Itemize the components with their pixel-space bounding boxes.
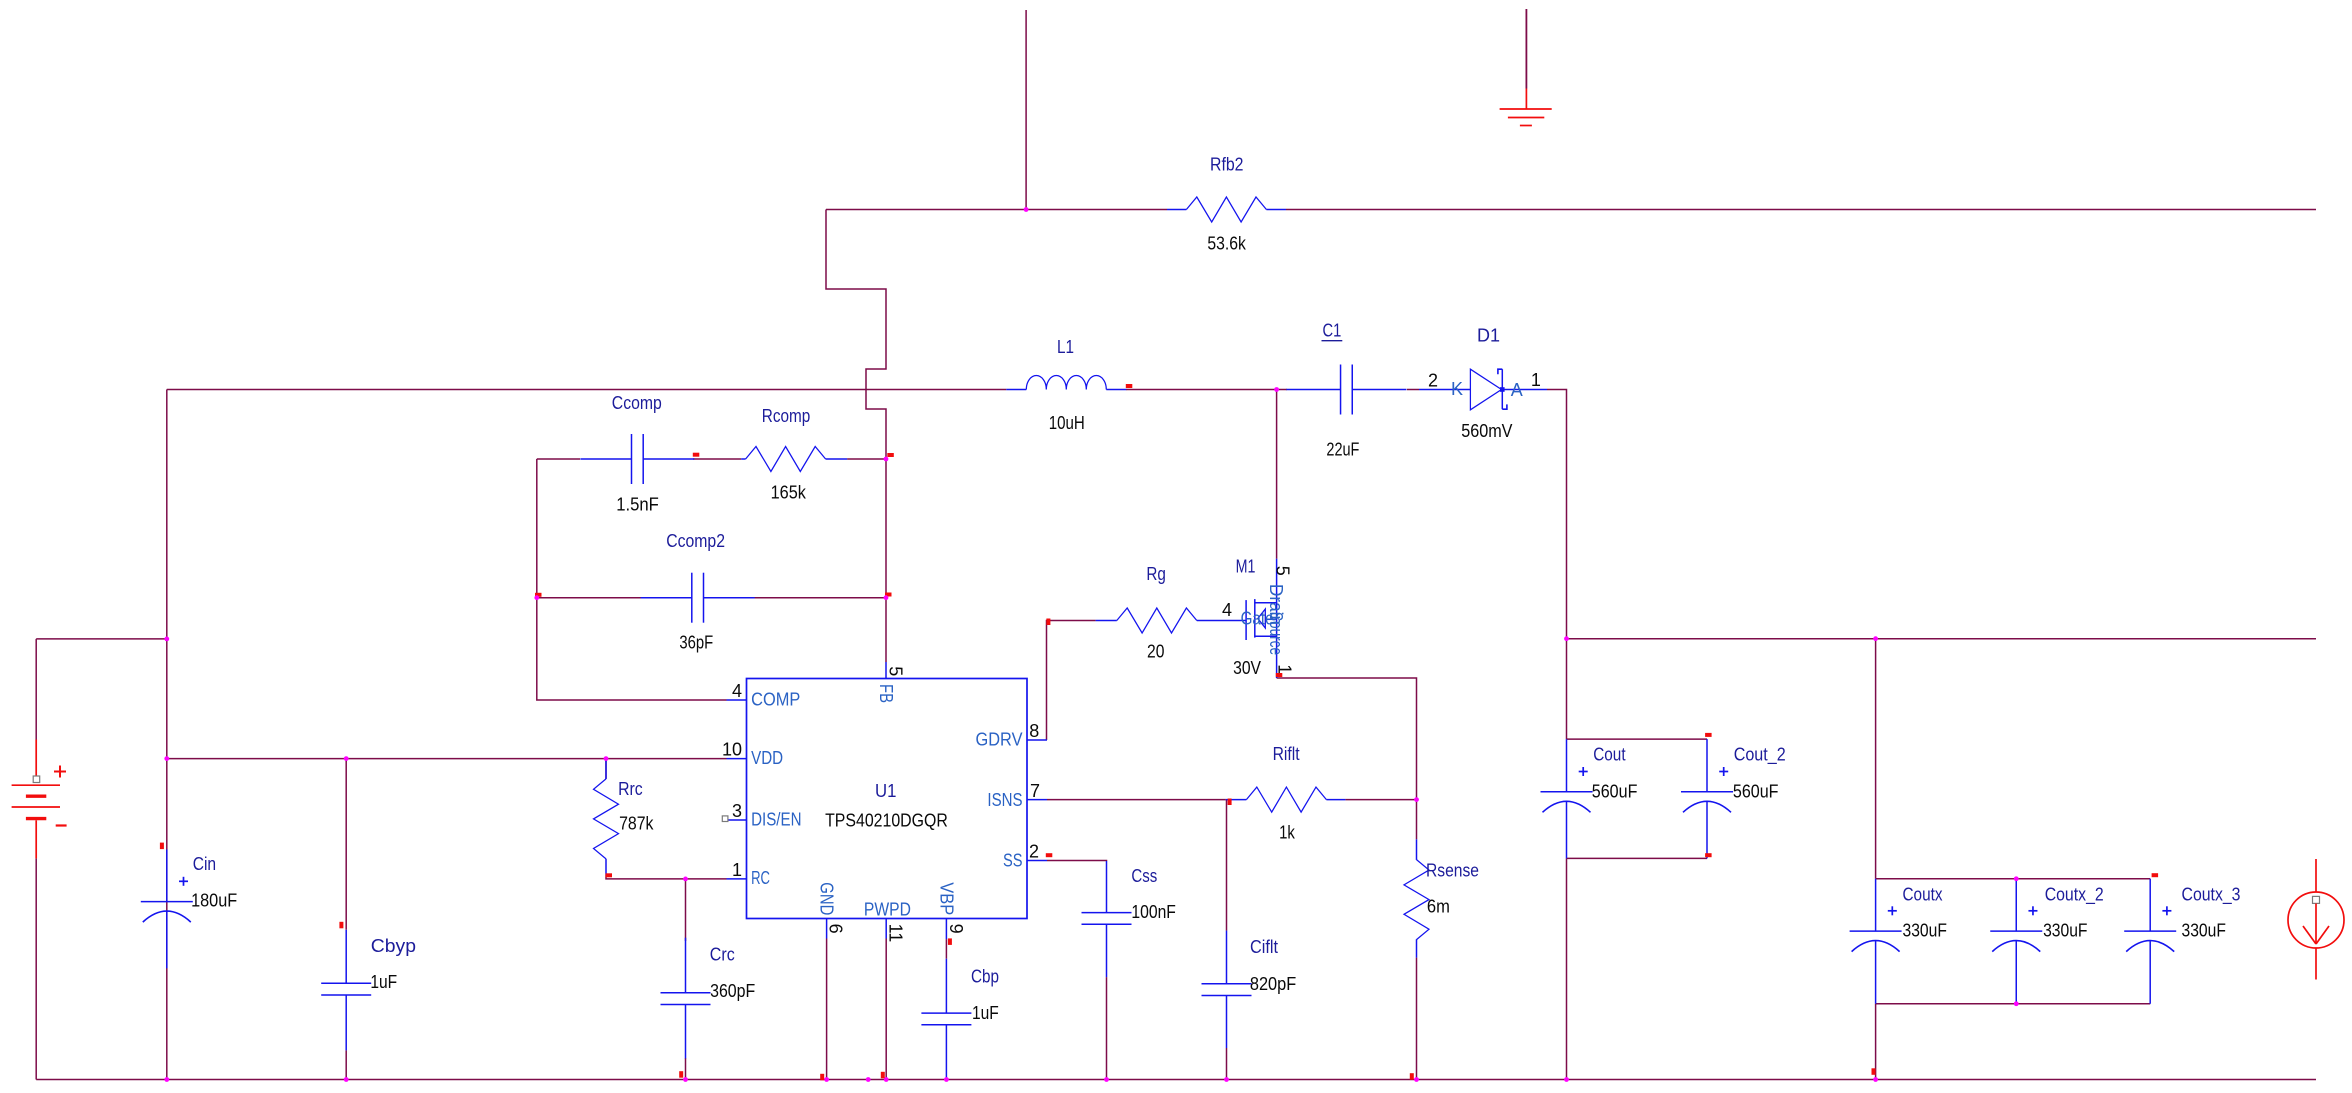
wire battery bottom vertical bbox=[35, 858, 37, 1079]
wire Riflt to Rsense top node bbox=[1345, 799, 1416, 801]
wire Crc top drop bbox=[685, 879, 687, 941]
terminal tick Rcomp right node bbox=[887, 453, 894, 457]
wire GDRV pin up and right to Rg bbox=[1047, 621, 1096, 741]
wire top feed vertical into Rfb2 rail bbox=[1025, 10, 1027, 210]
node switch junction bbox=[1274, 387, 1279, 392]
current source IS1 bbox=[2288, 859, 2344, 980]
ground symbol top right bbox=[1500, 9, 1552, 126]
svg-text:5: 5 bbox=[886, 666, 906, 676]
terminal tick Ccomp2 left bbox=[535, 593, 542, 597]
wire output rail down to Cout bbox=[1566, 639, 1568, 739]
wire PWPD pin to ground rail bbox=[885, 939, 887, 1080]
svg-text:Gate: Gate bbox=[1241, 609, 1274, 629]
op-amp U1 TPS40210DGQR box bbox=[747, 679, 1028, 919]
svg-text:Cout: Cout bbox=[1593, 745, 1625, 765]
terminal tick Cout_2 bottom bbox=[1705, 853, 1712, 857]
svg-text:Css: Css bbox=[1131, 866, 1157, 886]
wire switch node down to M1 drain bbox=[1276, 390, 1278, 559]
wire left vertical VIN rail bbox=[166, 390, 168, 1080]
terminal tick GND bottom bbox=[820, 1074, 824, 1081]
terminal tick Cbyp top bbox=[339, 922, 343, 929]
pin 10 VDD bbox=[722, 740, 783, 768]
svg-text:DIS/EN: DIS/EN bbox=[751, 809, 801, 829]
terminal tick L1 right bbox=[1126, 384, 1133, 388]
svg-text:TPS40210DGQR: TPS40210DGQR bbox=[825, 810, 948, 830]
wire Rrc top connection bbox=[605, 759, 607, 779]
svg-text:20: 20 bbox=[1147, 642, 1164, 662]
wire D1 anode to output rail bbox=[1547, 390, 1567, 639]
svg-text:10uH: 10uH bbox=[1049, 413, 1085, 433]
svg-text:VDD: VDD bbox=[751, 748, 783, 768]
svg-text:3: 3 bbox=[732, 801, 742, 821]
transistor M1 bbox=[1222, 556, 1295, 678]
wire ground bottom rail bbox=[36, 1079, 2316, 1081]
wire Coutx loop bottom bbox=[1876, 1003, 2151, 1005]
svg-text:GDRV: GDRV bbox=[976, 729, 1023, 749]
svg-text:4: 4 bbox=[1222, 600, 1232, 620]
wire Cout loop top bbox=[1567, 738, 1708, 740]
terminal tick Rsense bottom bbox=[1410, 1073, 1414, 1080]
svg-text:820pF: 820pF bbox=[1250, 974, 1296, 994]
wire output rail down to Coutx bank bbox=[1875, 639, 1877, 879]
pin 5 FB bbox=[876, 662, 905, 703]
pin 8 GDRV bbox=[976, 721, 1048, 749]
svg-text:SS: SS bbox=[1003, 850, 1023, 870]
wire Ccomp left lead-in bbox=[537, 458, 580, 460]
capacitor Cbp bbox=[921, 959, 999, 1080]
terminal tick VBP bbox=[948, 938, 952, 945]
terminal tick PWPD bottom bbox=[881, 1072, 885, 1079]
wire Cbyp top drop bbox=[345, 759, 347, 930]
wire Cbyp bottom stub bbox=[345, 1050, 347, 1079]
terminal tick SS bbox=[1046, 853, 1053, 857]
wire battery top horizontal bbox=[36, 638, 167, 640]
terminal tick Ccomp right bbox=[693, 453, 700, 457]
capacitor Ccomp2 bbox=[641, 531, 755, 652]
svg-text:GND: GND bbox=[817, 882, 837, 915]
capacitor Coutx_2 bbox=[1990, 879, 2103, 1004]
terminal tick Coutx bottom bbox=[1872, 1068, 1876, 1075]
svg-text:Crc: Crc bbox=[710, 944, 735, 964]
svg-text:ISNS: ISNS bbox=[987, 790, 1022, 810]
wire VBP to Cbp bbox=[945, 939, 947, 959]
wire output rail to right edge bbox=[1567, 638, 2317, 640]
svg-text:Rcomp: Rcomp bbox=[762, 406, 811, 426]
svg-text:330uF: 330uF bbox=[2182, 921, 2226, 941]
pin 9 VBP bbox=[936, 882, 966, 939]
terminal tick Coutx_3 top bbox=[2152, 873, 2159, 877]
svg-text:C1: C1 bbox=[1323, 321, 1342, 341]
svg-text:8: 8 bbox=[1029, 721, 1039, 741]
pin 11 PWPD bbox=[864, 900, 911, 943]
wire Ciflt top drop bbox=[1226, 800, 1228, 931]
terminal tick Riflt left node bbox=[1228, 799, 1232, 806]
wire FB vertical from Rcomp node to FB pin bbox=[885, 459, 887, 662]
svg-text:PWPD: PWPD bbox=[864, 900, 911, 920]
resistor Rfb2 bbox=[1167, 154, 1286, 253]
resistor Rg bbox=[1096, 564, 1247, 662]
svg-text:6: 6 bbox=[826, 924, 846, 934]
wire input row from left vertical to L1 bbox=[167, 389, 1007, 391]
svg-text:180uF: 180uF bbox=[191, 891, 237, 911]
svg-text:Coutx_2: Coutx_2 bbox=[2045, 884, 2104, 905]
wire RC row from Rrc bottom to RC pin bbox=[606, 875, 727, 879]
resistor Riflt bbox=[1226, 744, 1346, 842]
inductor L1 bbox=[1006, 337, 1126, 433]
svg-text:Rfb2: Rfb2 bbox=[1210, 154, 1244, 174]
svg-text:2: 2 bbox=[1029, 842, 1039, 862]
svg-text:1uF: 1uF bbox=[370, 972, 397, 992]
capacitor Cout_2 bbox=[1681, 739, 1786, 858]
wire Cout loop bottom bbox=[1567, 857, 1708, 859]
pin 2 SS bbox=[1003, 842, 1047, 871]
svg-text:L1: L1 bbox=[1057, 337, 1074, 357]
terminal tick Crc bottom bbox=[679, 1071, 683, 1078]
svg-text:1uF: 1uF bbox=[972, 1003, 999, 1023]
svg-text:1: 1 bbox=[1275, 664, 1295, 674]
terminal tick FB node bbox=[885, 593, 892, 597]
svg-text:FB: FB bbox=[876, 684, 896, 703]
svg-text:Cbp: Cbp bbox=[971, 967, 999, 987]
svg-text:560uF: 560uF bbox=[1733, 781, 1779, 801]
capacitor Coutx_3 bbox=[2124, 879, 2240, 1004]
wire Ccomp2 right to FB vertical bbox=[754, 597, 886, 599]
capacitor Cin bbox=[141, 850, 237, 969]
wire Rsense top lead-in bbox=[1416, 800, 1418, 840]
capacitor Ciflt bbox=[1202, 931, 1297, 1048]
svg-text:Riflt: Riflt bbox=[1273, 744, 1300, 764]
wire FB feedback jog from rail down to Rcomp node bbox=[826, 210, 886, 460]
wire Ccomp to Rcomp bbox=[693, 458, 741, 460]
diode D1 bbox=[1419, 325, 1547, 441]
terminal tick Rrc bottom bbox=[606, 873, 613, 877]
svg-text:30V: 30V bbox=[1233, 658, 1261, 678]
pin 1 RC bbox=[727, 860, 771, 888]
capacitor Ccomp bbox=[580, 393, 694, 514]
wire L1 to C1 via M1 node bbox=[1126, 389, 1287, 391]
resistor Rcomp bbox=[741, 406, 847, 502]
svg-text:2: 2 bbox=[1428, 371, 1438, 391]
svg-text:Rsense: Rsense bbox=[1426, 860, 1479, 880]
svg-text:1: 1 bbox=[732, 860, 742, 880]
svg-text:1.5nF: 1.5nF bbox=[616, 494, 659, 514]
svg-text:D1: D1 bbox=[1477, 325, 1500, 345]
wire Rfb2 rail right segment to right edge bbox=[1286, 209, 2316, 211]
svg-text:K: K bbox=[1451, 379, 1463, 399]
svg-text:36pF: 36pF bbox=[679, 633, 713, 653]
wire Rcomp to FB node bbox=[847, 458, 886, 460]
svg-text:9: 9 bbox=[946, 924, 966, 934]
svg-text:787k: 787k bbox=[619, 814, 654, 834]
capacitor Css bbox=[1082, 861, 1176, 977]
svg-text:RC: RC bbox=[751, 868, 770, 888]
capacitor Coutx bbox=[1850, 879, 1947, 1004]
svg-text:A: A bbox=[1511, 380, 1523, 400]
wire Ccomp2 left bbox=[537, 597, 642, 599]
wire VDD rail bbox=[167, 758, 727, 760]
wire battery top vertical upper bbox=[35, 639, 37, 740]
wire Css bottom stub bbox=[1106, 977, 1108, 1079]
capacitor Cbyp bbox=[321, 930, 416, 1051]
svg-text:VBP: VBP bbox=[936, 882, 956, 915]
terminal tick GDRV corner bbox=[1046, 619, 1050, 626]
svg-text:4: 4 bbox=[732, 681, 742, 701]
svg-text:5: 5 bbox=[1273, 566, 1293, 576]
wire C1 to D1 short segment bbox=[1407, 389, 1419, 391]
svg-text:Ciflt: Ciflt bbox=[1250, 937, 1278, 957]
svg-text:560uF: 560uF bbox=[1592, 781, 1638, 801]
svg-text:Coutx: Coutx bbox=[1903, 884, 1943, 904]
svg-text:Ccomp: Ccomp bbox=[612, 393, 662, 413]
terminal tick Cout_2 top bbox=[1705, 733, 1712, 737]
svg-text:Cout_2: Cout_2 bbox=[1734, 745, 1786, 766]
resistor Rrc bbox=[594, 759, 655, 875]
svg-text:1k: 1k bbox=[1279, 823, 1296, 843]
svg-text:COMP: COMP bbox=[751, 689, 800, 709]
svg-text:330uF: 330uF bbox=[1903, 921, 1947, 941]
wire M1 source right and down to ISNS node bbox=[1277, 678, 1417, 800]
wire Crc bottom stub bbox=[685, 1058, 687, 1080]
pin 3 DIS/EN bbox=[722, 801, 801, 829]
svg-text:6m: 6m bbox=[1427, 896, 1450, 916]
svg-text:165k: 165k bbox=[771, 483, 807, 503]
svg-text:Cin: Cin bbox=[193, 854, 216, 874]
svg-text:11: 11 bbox=[886, 924, 906, 943]
svg-text:Rg: Rg bbox=[1146, 564, 1166, 584]
svg-text:Coutx_3: Coutx_3 bbox=[2182, 884, 2241, 905]
wire Rsense bottom to ground rail bbox=[1416, 958, 1418, 1080]
wire Ciflt bottom stub bbox=[1226, 1048, 1228, 1080]
svg-text:22uF: 22uF bbox=[1326, 440, 1359, 460]
svg-text:53.6k: 53.6k bbox=[1207, 233, 1246, 253]
wire COMP loop left vertical and bottom to COMP pin bbox=[537, 459, 727, 700]
svg-text:360pF: 360pF bbox=[710, 981, 755, 1001]
capacitor C1 bbox=[1286, 321, 1406, 460]
svg-text:U1: U1 bbox=[875, 781, 896, 801]
terminal tick Cin top bbox=[160, 843, 164, 850]
resistor Rsense bbox=[1404, 839, 1479, 957]
wire GND pin to ground rail bbox=[826, 939, 828, 1080]
wire junction stub bbox=[166, 638, 168, 640]
capacitor Crc bbox=[661, 938, 756, 1059]
pin 7 ISNS bbox=[987, 781, 1047, 810]
svg-text:10: 10 bbox=[722, 740, 742, 760]
svg-text:330uF: 330uF bbox=[2043, 921, 2087, 941]
capacitor Cout bbox=[1541, 739, 1638, 858]
wire SS pin to Css bbox=[1047, 860, 1107, 863]
terminal tick M1 source bbox=[1276, 673, 1283, 677]
svg-text:Cbyp: Cbyp bbox=[371, 936, 416, 956]
battery V1 bbox=[12, 740, 67, 859]
wire Coutx bottom to ground rail bbox=[1875, 1004, 1877, 1080]
svg-text:Ccomp2: Ccomp2 bbox=[666, 531, 725, 551]
svg-text:1: 1 bbox=[1531, 370, 1541, 390]
wire Coutx loop top bbox=[1876, 878, 2151, 880]
wire ISNS pin to Riflt/Ciflt node bbox=[1047, 799, 1226, 801]
wire cin stub bbox=[166, 849, 168, 851]
svg-text:M1: M1 bbox=[1236, 556, 1256, 576]
svg-text:7: 7 bbox=[1030, 781, 1040, 801]
wire Cout bottom to ground rail bbox=[1566, 858, 1568, 1079]
wire Rfb2 rail left segment bbox=[826, 209, 1167, 211]
svg-text:Rrc: Rrc bbox=[618, 779, 643, 799]
pin 6 GND bbox=[817, 882, 846, 938]
svg-text:100nF: 100nF bbox=[1131, 902, 1176, 922]
svg-text:560mV: 560mV bbox=[1461, 421, 1512, 441]
pin 4 COMP bbox=[727, 681, 801, 709]
